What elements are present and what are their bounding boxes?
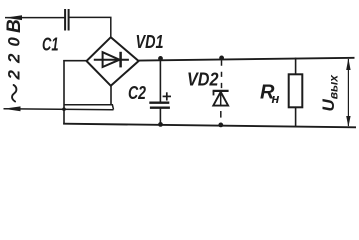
AC input arrow (top) (5, 15, 22, 20)
label ~220 V (rotated): letter V (4, 19, 25, 33)
junction blob at feed crossing (62, 107, 66, 111)
wire: parallel stub to bridge bottom (64, 105, 114, 110)
wire: C1 to bridge top vertex (69, 17, 111, 37)
diode inside VD1 (94, 52, 129, 68)
junction dot: VD2 top (219, 56, 224, 61)
junction dot: VD2 bottom (218, 123, 223, 128)
wire: top feed to C1 (5, 17, 65, 19)
capacitor C2 top lead (159, 58, 161, 102)
top rail (DC+) (139, 58, 355, 61)
svg-text:В: В (4, 19, 25, 33)
label ~220 V (rotated): digits 220 (5, 30, 24, 80)
label ~220 V (rotated): tilde (12, 85, 16, 102)
svg-text:VD1: VD1 (136, 32, 164, 52)
capacitor C2 plates (149, 101, 169, 103)
bottom rail (63, 124, 356, 128)
zener diode VD2 (213, 91, 229, 106)
capacitor C1 (64, 9, 66, 31)
wire: DC- vertical drop (63, 60, 65, 124)
svg-text:VD2: VD2 (187, 70, 219, 90)
wire: VD2 dashed top (221, 61, 223, 91)
wire: bottom feed (4, 108, 114, 111)
svg-text:C2: C2 (128, 83, 146, 103)
label Uvyh (rotated) (319, 74, 340, 112)
junction dot: C2 bottom (158, 122, 163, 127)
junction dot: C2 top (158, 56, 163, 61)
svg-text:н: н (272, 91, 280, 106)
wire: bridge bottom vertex lead (110, 86, 112, 105)
svg-text:220: 220 (5, 30, 24, 80)
resistor Rn top lead (295, 58, 297, 75)
wire: bridge left vertex to DC- drop (63, 60, 87, 62)
capacitor C2 bottom lead (159, 108, 161, 125)
C2 polarity plus (163, 92, 171, 100)
wire: VD2 dashed bottom (220, 111, 222, 118)
resistor Rn body (289, 74, 303, 107)
AC input arrow (bottom) (4, 106, 21, 111)
bridge rectifier VD1 (diamond) (87, 37, 139, 86)
resistor Rn bottom lead (295, 107, 297, 126)
output voltage arrow Uvyh (347, 59, 349, 126)
svg-text:C1: C1 (42, 35, 59, 55)
